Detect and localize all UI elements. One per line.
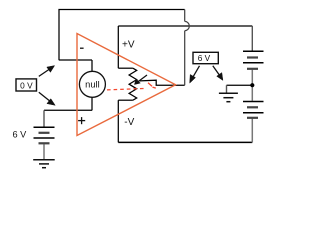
svg-text:0 V: 0 V [20,80,33,90]
svg-text:null: null [85,80,99,90]
svg-text:6 V: 6 V [198,53,211,63]
svg-text:+V: +V [122,40,135,51]
svg-text:-V: -V [124,117,134,128]
svg-text:6 V: 6 V [13,130,28,140]
